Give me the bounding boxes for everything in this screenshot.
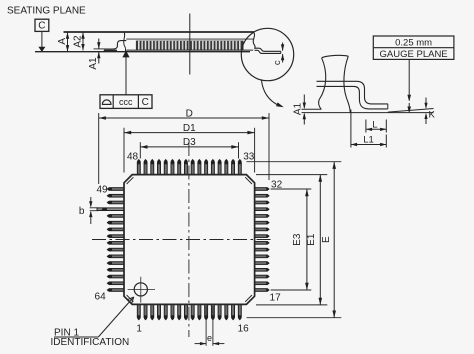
side view centerline [189,14,191,75]
svg-text:GAUGE PLANE: GAUGE PLANE [380,49,448,60]
svg-text:L: L [372,119,377,130]
seating plane line [35,51,250,53]
top view vertical centerline [188,142,190,337]
svg-text:33: 33 [243,151,255,162]
package pins right side [255,188,270,292]
dimension E [321,162,336,318]
svg-text:D1: D1 [183,123,196,134]
dimension E1 [306,175,322,305]
side view left lead foot [104,41,127,51]
dimension E extension lines [247,162,342,318]
enlarged foot detail package wall section [319,55,351,112]
dimension E3 extension lines [271,189,312,290]
side view package body top edge [64,31,255,33]
seating plane line of foot detail [302,112,434,114]
svg-text:D3: D3 [183,137,196,148]
dimension E1 extension lines [256,175,327,305]
svg-text:SEATING PLANE: SEATING PLANE [7,6,86,17]
svg-text:A1: A1 [88,57,99,70]
dimension e pitch [195,306,225,346]
package underside extension line [302,108,322,110]
dimension E3 [292,189,309,290]
svg-text:b: b [79,206,85,217]
svg-text:E3: E3 [292,233,303,246]
feature control frame ccc C [100,95,152,109]
svg-text:IDENTIFICATION: IDENTIFICATION [51,337,130,348]
gauge plane note box 0.25 mm [373,36,454,60]
svg-text:49: 49 [96,184,108,195]
package pins left side [97,188,124,292]
svg-text:A1: A1 [292,102,303,115]
svg-text:C: C [38,21,45,32]
side view leads band [136,41,244,51]
curved leader from circle to enlarged foot view [262,80,284,107]
gauge plane leader line with arrows [407,59,411,113]
svg-text:A: A [57,38,68,45]
dimension A1 side view [88,39,106,70]
top view horizontal centerline [92,239,272,241]
svg-text:16: 16 [238,324,250,335]
corner bevel lines [127,177,252,302]
foot angle K line [388,109,434,113]
dimension b [79,197,98,224]
dimension D3 [140,137,238,158]
package pins bottom side [137,304,241,320]
svg-text:c: c [272,60,283,65]
body break line right end [253,32,255,49]
package body outline with chamfered corners [124,175,255,305]
lead profile inside detail circle [255,48,281,53]
svg-text:C: C [142,97,149,108]
datum C leader with filled triangle on seating plane [38,31,45,52]
dimension L [366,119,386,132]
svg-text:A2: A2 [73,35,84,48]
svg-text:1: 1 [136,324,142,335]
package pins top side [137,159,241,175]
svg-text:e: e [207,333,212,343]
dimension c arrows [272,43,284,66]
svg-text:48: 48 [127,151,139,162]
dimension A2 [73,32,85,50]
svg-text:17: 17 [270,293,282,304]
svg-text:0.25 mm: 0.25 mm [395,37,432,48]
detail circle around lead end [241,28,293,80]
dimension L1 [351,110,386,148]
svg-text:D: D [186,108,193,119]
side view break line near left end [124,31,126,51]
side view lead band bottom line [126,49,253,51]
dimension A [57,32,69,51]
PIN 1 IDENTIFICATION label and leader [51,297,134,348]
svg-text:64: 64 [95,291,107,302]
svg-text:32: 32 [271,179,283,190]
enlarged gull-wing lead [317,81,388,109]
dimension A1 foot detail [292,95,306,125]
datum symbol C box [35,19,49,32]
dimension D1 [124,123,255,173]
svg-text:E1: E1 [306,233,317,246]
pin 1 identification circle [128,277,155,303]
svg-text:ccc: ccc [119,97,133,107]
svg-text:E: E [321,236,332,243]
svg-text:L1: L1 [363,135,374,146]
svg-text:K: K [429,109,436,120]
side view lead shoulder line [126,38,253,40]
leader from frame to seating plane [122,50,129,94]
dimension D [99,108,269,184]
dimension K angle [424,98,435,125]
